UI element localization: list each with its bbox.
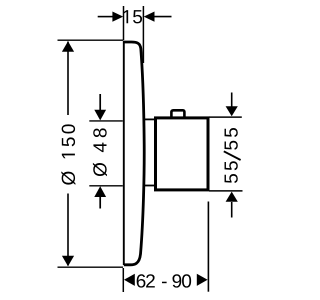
- node arrowhead down 55/55: [226, 106, 238, 116]
- node arrowhead left of 15: [112, 12, 123, 22]
- value label diameter 48: [93, 128, 107, 176]
- value label 55/55: [224, 128, 241, 183]
- value label 62 - 90: [137, 274, 191, 287]
- node arrowhead up 55/55: [226, 192, 238, 202]
- wire 15-dim right leader: [154, 16, 171, 18]
- value label diameter 150: [61, 124, 75, 184]
- wire D150 top extension line: [58, 39, 124, 41]
- wire 15-dim right extension line: [142, 6, 144, 63]
- wire D48 top arrow stem: [99, 94, 101, 110]
- thermostat knob body: [156, 118, 209, 190]
- node arrowhead right of 15: [144, 12, 155, 22]
- escutcheon plate left wall edge: [123, 41, 125, 265]
- button tab on knob top: [171, 110, 184, 118]
- sleeve bottom line: [145, 185, 155, 187]
- sleeve top line: [145, 118, 155, 120]
- wire 55/55 top extension line: [209, 116, 242, 118]
- value label 15: [124, 10, 143, 23]
- wire D150 dimension line upper segment: [67, 42, 69, 116]
- wire D48 bottom arrow stem: [99, 197, 101, 209]
- wire 55/55 bottom arrow stem: [231, 202, 233, 218]
- wire 15-dim left extension line: [123, 6, 125, 40]
- wire D48 bottom extension line: [89, 185, 123, 187]
- wire 62-90 left extension line: [122, 268, 124, 292]
- node arrowhead left 62-90: [124, 274, 135, 286]
- node arrowhead right 62-90: [197, 274, 208, 286]
- wire D150 bottom extension line: [58, 266, 124, 268]
- wire D150 dimension line lower segment: [67, 194, 69, 266]
- node arrowhead down D48: [94, 110, 106, 121]
- wire 55/55 top arrow stem: [231, 93, 233, 108]
- wire 55/55 bottom extension line: [209, 190, 243, 192]
- wire 15-dim left leader: [98, 16, 113, 18]
- escutcheon plate outline: [124, 42, 144, 265]
- node arrowhead up D48: [94, 186, 106, 197]
- wire 62-90 right extension line: [207, 202, 209, 292]
- wire D48 top extension line: [89, 120, 123, 122]
- node arrowhead up D150: [62, 41, 74, 52]
- node arrowhead down D150: [62, 256, 74, 266]
